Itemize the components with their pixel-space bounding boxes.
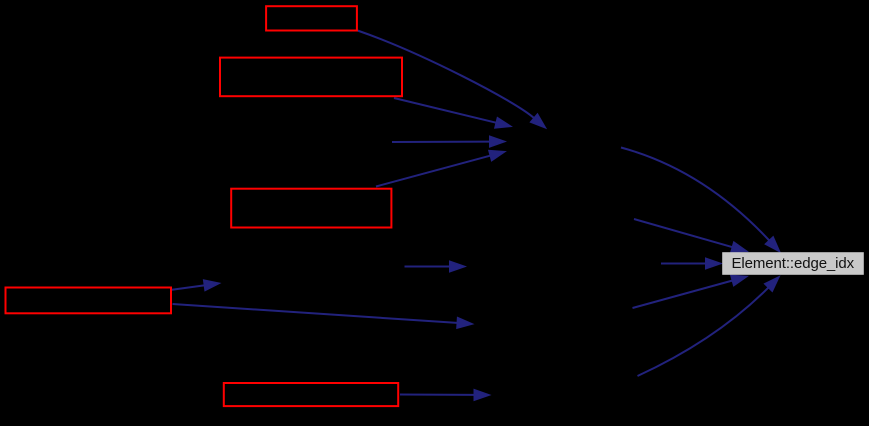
svg-text:Element::edge_idx: Element::edge_idx <box>732 255 855 272</box>
